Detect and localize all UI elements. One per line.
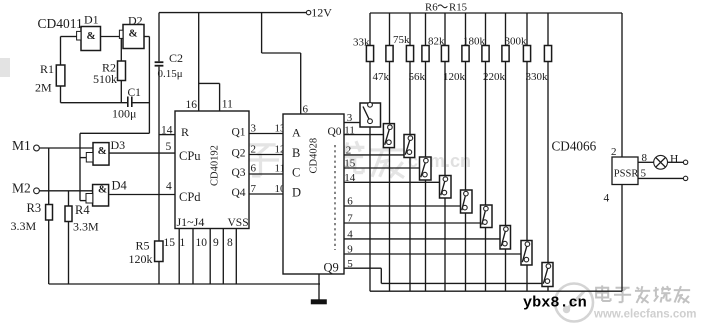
svg-text:J1~J4: J1~J4	[177, 215, 205, 229]
svg-text:R15: R15	[449, 1, 467, 13]
svg-text:H: H	[670, 154, 678, 166]
svg-text:14: 14	[161, 125, 173, 137]
svg-text:&: &	[98, 183, 107, 195]
svg-text:15: 15	[344, 158, 356, 170]
svg-text:2: 2	[611, 146, 617, 158]
svg-text:Q4: Q4	[232, 187, 246, 199]
svg-text:C: C	[292, 166, 300, 180]
svg-text:R5: R5	[136, 239, 150, 253]
svg-text:1: 1	[180, 237, 186, 249]
svg-text:VSS: VSS	[228, 217, 249, 229]
svg-text:M1: M1	[12, 138, 31, 153]
svg-text:&: &	[129, 28, 138, 40]
svg-text:B: B	[292, 146, 300, 160]
svg-text:6: 6	[347, 196, 353, 208]
svg-text:5: 5	[347, 258, 353, 270]
svg-text:CPu: CPu	[179, 149, 201, 163]
svg-text:2: 2	[346, 145, 352, 157]
svg-text:100μ: 100μ	[112, 107, 136, 121]
svg-text:D3: D3	[111, 138, 126, 152]
svg-text:A: A	[292, 126, 301, 140]
svg-text:D1: D1	[84, 12, 99, 26]
svg-text:6: 6	[251, 163, 257, 175]
svg-text:7: 7	[347, 213, 353, 225]
svg-text:11: 11	[222, 99, 233, 111]
svg-text:Q0: Q0	[328, 126, 342, 138]
svg-text:Q9: Q9	[324, 261, 339, 275]
svg-text:R: R	[181, 125, 189, 139]
svg-text:www.elecfans.com: www.elecfans.com	[593, 309, 696, 321]
svg-text:75k: 75k	[393, 34, 410, 46]
svg-text:&: &	[87, 30, 96, 42]
svg-text:9: 9	[347, 244, 353, 256]
svg-text:16: 16	[186, 99, 198, 111]
svg-text:7: 7	[251, 183, 257, 195]
svg-text:PSSR: PSSR	[614, 169, 639, 180]
svg-text:CD4066: CD4066	[552, 138, 597, 153]
svg-text:C1: C1	[128, 87, 142, 99]
svg-text:5: 5	[641, 168, 647, 180]
svg-text:82k: 82k	[428, 36, 445, 48]
svg-text:4: 4	[604, 193, 610, 205]
svg-text:R1: R1	[40, 62, 54, 76]
svg-text:R3: R3	[27, 201, 42, 215]
svg-text:Q1: Q1	[232, 127, 246, 139]
svg-text:10: 10	[196, 237, 208, 249]
svg-text:M2: M2	[12, 181, 31, 196]
svg-text:CD4011: CD4011	[38, 16, 83, 31]
svg-text:Q2: Q2	[232, 148, 246, 160]
svg-text:3: 3	[347, 112, 353, 124]
svg-text:D: D	[292, 186, 301, 200]
svg-text:56k: 56k	[409, 71, 426, 83]
svg-text:ybx8.cn: ybx8.cn	[523, 294, 587, 312]
svg-text:CD40192: CD40192	[210, 145, 221, 186]
svg-text:180k: 180k	[463, 36, 486, 48]
svg-text:0.15μ: 0.15μ	[158, 68, 183, 80]
svg-text:220k: 220k	[483, 71, 506, 83]
svg-text:CD4028: CD4028	[309, 138, 320, 174]
svg-text:4: 4	[347, 229, 353, 241]
svg-text:2M: 2M	[35, 81, 52, 95]
svg-text:300k: 300k	[505, 36, 528, 48]
svg-text:&: &	[98, 145, 107, 157]
svg-text:C2: C2	[169, 51, 183, 65]
svg-text:12V: 12V	[311, 6, 332, 20]
svg-text:3.3M: 3.3M	[73, 220, 99, 234]
svg-text:47k: 47k	[373, 71, 390, 83]
svg-text:330k: 330k	[526, 71, 549, 83]
svg-text:D4: D4	[112, 179, 128, 193]
svg-text:R6: R6	[425, 1, 438, 13]
svg-text:9: 9	[213, 237, 219, 249]
svg-text:R4: R4	[75, 203, 90, 217]
svg-text:4: 4	[166, 181, 172, 193]
svg-text:15: 15	[164, 237, 176, 249]
svg-text:8: 8	[227, 237, 233, 249]
svg-text:3: 3	[251, 123, 257, 135]
svg-text:120k: 120k	[129, 252, 153, 266]
svg-text:3.3M: 3.3M	[11, 219, 37, 233]
svg-text:D2: D2	[128, 14, 143, 28]
svg-text:Q3: Q3	[232, 167, 246, 179]
svg-text:510k: 510k	[93, 72, 117, 86]
svg-text:120k: 120k	[443, 71, 466, 83]
svg-text:CPd: CPd	[179, 190, 201, 204]
svg-text:5: 5	[166, 141, 172, 153]
svg-text:33k: 33k	[353, 36, 370, 48]
svg-text:2: 2	[251, 144, 257, 156]
svg-text:11: 11	[344, 124, 355, 136]
svg-text:14: 14	[344, 172, 356, 184]
